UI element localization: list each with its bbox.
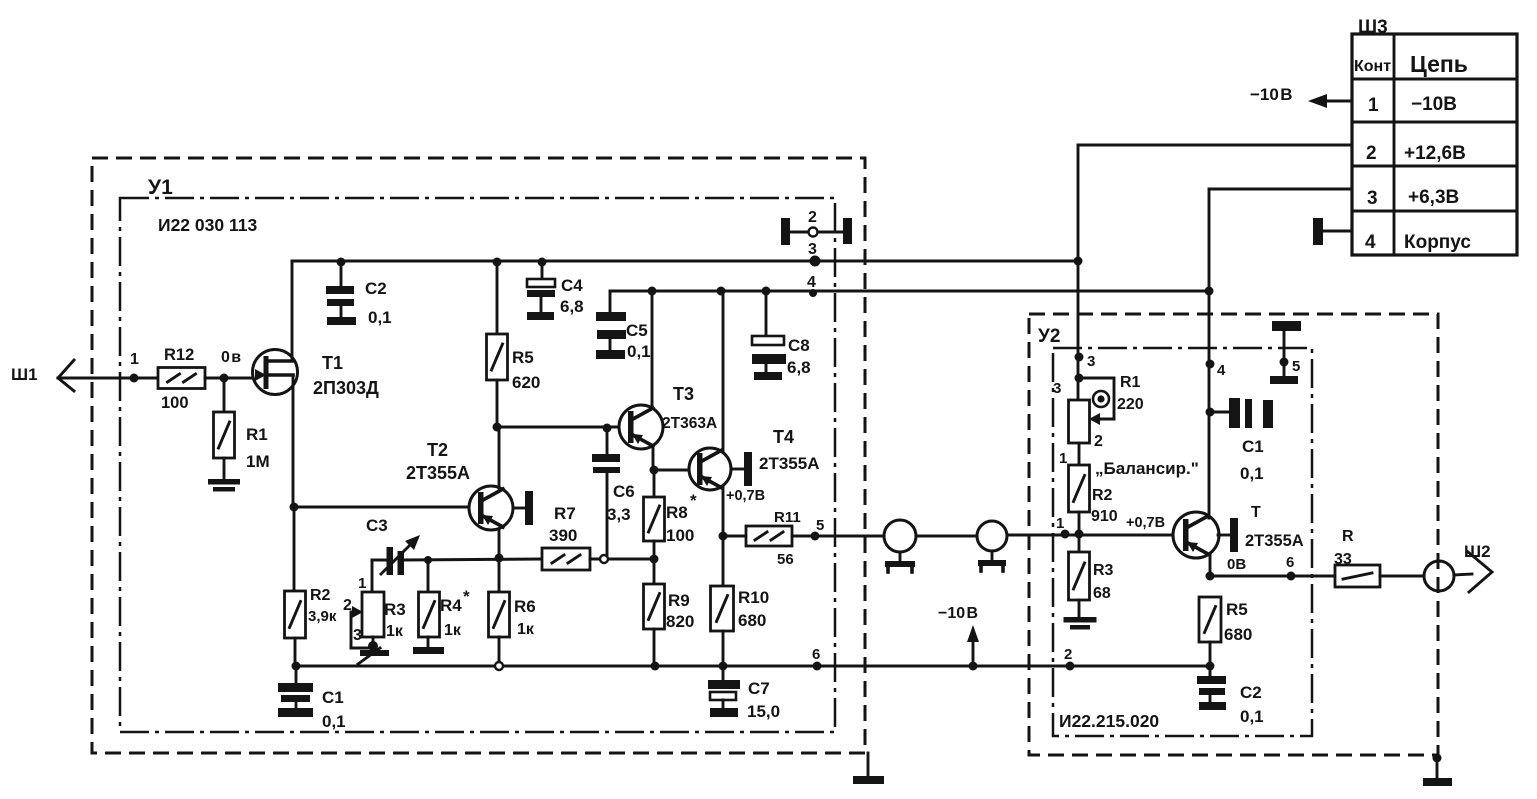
node U1 pin 5	[811, 517, 825, 541]
svg-text:2Т355А: 2Т355А	[759, 454, 819, 473]
svg-text:3: 3	[808, 241, 817, 258]
wire T emitter down	[1209, 554, 1212, 576]
node U2 pin 6	[1286, 554, 1296, 581]
resistor R3 1к (trim)	[362, 560, 406, 640]
wire R7 right to R8/R9	[590, 558, 654, 561]
svg-text:5: 5	[1292, 358, 1300, 375]
resistor R6 1к	[489, 559, 536, 666]
ground below R3 with adjust slash	[358, 637, 389, 664]
wire +6,3V from table pin 3	[1209, 188, 1352, 191]
node R9 bottom	[651, 662, 660, 671]
svg-text:У2: У2	[1038, 326, 1060, 347]
wire T1 source down	[292, 375, 295, 507]
node C1 left	[1206, 408, 1215, 417]
module U1 inner dash-dot box И22 030 113	[120, 198, 835, 732]
capacitor C1 0,1 (U2)	[1210, 398, 1273, 483]
resistor R10 680	[711, 586, 770, 666]
svg-text:Т4: Т4	[773, 427, 794, 447]
svg-text:1: 1	[1056, 515, 1064, 532]
svg-text:Ш3: Ш3	[1358, 17, 1388, 38]
case bar of T	[1218, 518, 1238, 552]
label 0V at T emitter	[1227, 556, 1246, 573]
node C2 top	[337, 258, 346, 267]
svg-text:1к: 1к	[386, 623, 404, 640]
label +0,7V at T base	[1126, 515, 1165, 531]
svg-text:620: 620	[512, 373, 540, 392]
node U2 base line junction	[1075, 530, 1084, 539]
R3 wiper terminal 2	[343, 597, 372, 648]
svg-text:R7: R7	[554, 504, 576, 523]
wire T4 collector up	[722, 291, 725, 452]
node T3 emitter / R8 / T4 base	[650, 466, 659, 475]
svg-text:C2: C2	[1240, 683, 1262, 702]
wire T1 source rail to T2 base	[294, 506, 469, 509]
svg-text:0,1: 0,1	[627, 342, 651, 361]
svg-text:*: *	[690, 491, 697, 510]
transistor T 2Т355А (U2)	[1173, 504, 1304, 558]
svg-text:−10 В: −10 В	[1250, 85, 1293, 104]
node R5/T2 collector/T3 base	[493, 423, 502, 432]
svg-text:R10: R10	[738, 588, 769, 607]
svg-text:R5: R5	[1226, 600, 1248, 619]
wire to T4 base	[654, 469, 688, 472]
node U1 pin 4	[807, 274, 817, 297]
label 3	[353, 627, 362, 644]
svg-text:0,1: 0,1	[368, 308, 392, 327]
svg-text:Корпус: Корпус	[1404, 232, 1471, 253]
svg-text:+12,6В: +12,6В	[1404, 143, 1466, 164]
svg-text:У1: У1	[148, 176, 173, 199]
resistor R5 680 (U2)	[1199, 597, 1252, 666]
svg-text:2: 2	[1094, 433, 1103, 450]
svg-text:И22.215.020: И22.215.020	[1059, 711, 1159, 731]
svg-text:C8: C8	[788, 336, 810, 355]
svg-text:100: 100	[666, 526, 694, 545]
node R5 top	[493, 258, 502, 267]
svg-text:C1: C1	[1242, 437, 1264, 456]
svg-text:4: 4	[807, 274, 816, 291]
svg-text:6,8: 6,8	[560, 297, 584, 316]
wire T3 emitter down	[652, 447, 655, 470]
ground below R1	[208, 479, 240, 492]
wire +6,3V vertical into U2 (T collector)	[1208, 189, 1211, 518]
svg-text:И22 030 113: И22 030 113	[158, 215, 257, 235]
module U2 inner dash-dot box И22.215.020	[1053, 348, 1312, 736]
svg-text:C3: C3	[366, 516, 388, 535]
svg-text:R9: R9	[668, 591, 690, 610]
feedthrough capacitor at U1 pin 2	[781, 209, 852, 245]
wire +6,3V top rail (U1 pin 3)	[292, 260, 1078, 263]
wire T2 emitter down	[498, 529, 501, 558]
capacitor C8 6,8	[752, 291, 811, 380]
node T1 source / R2 top	[290, 503, 299, 512]
resistor R8* 100	[644, 470, 698, 559]
wire +12,6V rail (U1 pin 4)	[610, 290, 1209, 293]
svg-text:R1: R1	[246, 425, 268, 444]
transistor T3 2Т363А	[619, 384, 717, 449]
node R6 bottom	[495, 662, 503, 670]
node 1 (U1 pin 1)	[130, 351, 140, 383]
node R1 top / wiper tap	[1053, 374, 1084, 398]
svg-text:680: 680	[1224, 625, 1252, 644]
wire +12,6V from table pin 2	[1078, 144, 1352, 147]
svg-text:C1: C1	[322, 688, 344, 707]
svg-text:4: 4	[1217, 362, 1226, 379]
svg-text:220: 220	[1117, 396, 1144, 413]
svg-text:6: 6	[812, 646, 820, 663]
capacitor C4 6,8	[527, 261, 584, 320]
feedthrough capacitor at table pin 4 (Корпус)	[1313, 218, 1352, 245]
node R5 bottom / C2 top	[1206, 662, 1215, 671]
svg-text:0,1: 0,1	[1240, 707, 1264, 726]
svg-text:2Т355А: 2Т355А	[406, 463, 470, 483]
node U1 pin 3	[808, 241, 821, 267]
svg-text:+6,3В: +6,3В	[1408, 187, 1459, 208]
module U1 outer dashed box	[92, 158, 865, 753]
resistor R 33 (output)	[1334, 528, 1380, 587]
capacitor C1 0,1	[278, 666, 346, 731]
svg-text:*: *	[463, 587, 470, 606]
node U2 pin 1	[1056, 515, 1070, 539]
resistor R2 3,9к	[285, 507, 337, 666]
svg-text:+0,7В: +0,7В	[1126, 515, 1165, 531]
svg-text:3,9к: 3,9к	[308, 608, 337, 625]
node U1 pin 6	[812, 646, 822, 671]
svg-text:Ш2: Ш2	[1464, 542, 1491, 561]
capacitor C2 0,1 (U2)	[1197, 666, 1264, 726]
node C4 top	[538, 258, 547, 267]
svg-text:Т3: Т3	[673, 384, 694, 404]
label И22.215.020	[1059, 711, 1159, 731]
svg-text:3: 3	[1053, 380, 1061, 397]
label +0,7V at T4 emitter	[726, 488, 765, 504]
node C6 on T3 base line	[603, 424, 612, 433]
resistor R11 56	[723, 509, 801, 568]
svg-text:3: 3	[353, 627, 362, 644]
node T3 collector on rail	[648, 287, 657, 296]
ground below U2 R3	[1064, 617, 1097, 630]
svg-text:0 в: 0 в	[221, 349, 241, 366]
resistor R5 620	[487, 261, 541, 427]
svg-text:−10В: −10В	[1411, 94, 1457, 115]
svg-text:Ш1: Ш1	[11, 365, 38, 384]
svg-text:3,3: 3,3	[607, 505, 631, 524]
svg-text:1М: 1М	[246, 452, 270, 471]
wire bottom bus (U1 pin 6 net)	[296, 665, 1210, 668]
capacitor C5 0,1	[596, 291, 651, 361]
node C6 bottom	[600, 555, 608, 563]
module U2 outer dashed box	[1029, 314, 1438, 755]
svg-text:2П303Д: 2П303Д	[313, 378, 379, 398]
node U2 pin 2	[1064, 646, 1075, 671]
node rail3 / +12,6V junction	[1074, 257, 1083, 266]
node T4 collector on rail	[717, 287, 726, 296]
transistor T2 2Т355А	[406, 440, 513, 530]
wire between connectors	[916, 535, 977, 538]
svg-text:0,1: 0,1	[322, 712, 346, 731]
svg-text:100: 100	[161, 394, 189, 412]
resistor R2 910	[1059, 443, 1118, 534]
node R4 top	[424, 556, 432, 564]
svg-text:2Т363А: 2Т363А	[662, 415, 717, 432]
capacitor C7 15,0	[708, 666, 780, 721]
svg-text:3: 3	[1367, 188, 1378, 209]
svg-text:1: 1	[358, 575, 366, 592]
svg-text:5: 5	[816, 517, 824, 534]
connector Ш1 arrow	[11, 360, 158, 391]
node U2 pin 3 outer	[1075, 353, 1096, 371]
wire T4 emitter down through R11 node	[722, 487, 725, 586]
svg-text:2: 2	[1366, 143, 1377, 164]
svg-text:1: 1	[1059, 450, 1067, 467]
svg-text:R2: R2	[310, 587, 331, 604]
svg-text:2: 2	[808, 209, 817, 226]
label 1 at R3 top	[358, 575, 366, 592]
svg-text:2: 2	[1064, 646, 1072, 663]
case bar of T2	[513, 491, 533, 525]
ground below R4	[413, 647, 444, 654]
resistor R1 1M	[214, 378, 270, 479]
ground below U1 box	[853, 753, 884, 784]
wire R12 to T1 gate	[205, 377, 253, 380]
svg-text:Т: Т	[1251, 504, 1261, 521]
svg-text:0,1: 0,1	[1240, 464, 1264, 483]
wire pin5 to coax connectors	[792, 535, 884, 538]
svg-text:1: 1	[1368, 95, 1379, 116]
resistor R9 820	[644, 559, 695, 666]
resistor R3 68	[1069, 534, 1114, 616]
svg-text:R2: R2	[1092, 487, 1113, 504]
svg-text:„Балансир.": „Балансир."	[1095, 459, 1199, 478]
svg-text:C6: C6	[613, 482, 635, 501]
-10V arrow at bus	[938, 605, 979, 671]
svg-text:R: R	[1342, 528, 1354, 545]
svg-text:R4: R4	[440, 596, 462, 615]
wire T1 drain up to +6,3V rail	[291, 261, 294, 361]
wire T3 collector up	[651, 291, 654, 407]
label U2	[1038, 326, 1060, 347]
svg-text:C2: C2	[365, 279, 387, 298]
svg-text:C5: C5	[626, 321, 648, 340]
svg-text:910: 910	[1091, 508, 1118, 525]
svg-text:Цепь: Цепь	[1410, 51, 1468, 77]
label Балансир	[1095, 459, 1199, 478]
node U2 pin 4	[1206, 360, 1227, 380]
label И22 030 113	[158, 215, 257, 235]
svg-text:680: 680	[738, 611, 766, 630]
capacitor C3 (trimmer)	[366, 516, 420, 575]
node R11 left on emitter line	[719, 532, 728, 541]
node rail4 end junction	[1205, 287, 1214, 296]
connector Ш2	[1380, 542, 1492, 592]
svg-text:C7: C7	[748, 679, 770, 698]
svg-text:0В: 0В	[1227, 556, 1246, 573]
svg-text:R12: R12	[164, 346, 194, 364]
svg-text:1к: 1к	[517, 621, 535, 638]
svg-text:R3: R3	[1093, 562, 1114, 579]
svg-text:1: 1	[130, 351, 139, 368]
svg-text:C4: C4	[561, 276, 583, 295]
transistor T4 2Т355А	[689, 427, 819, 490]
resistor R7 390	[542, 504, 590, 570]
label U1	[148, 176, 173, 199]
svg-text:Т2: Т2	[427, 440, 448, 460]
svg-text:390: 390	[549, 526, 577, 545]
svg-text:820: 820	[666, 612, 694, 631]
svg-text:R11: R11	[774, 509, 801, 526]
node C8 top	[762, 287, 771, 296]
net -10V arrow into table pin 1	[1250, 85, 1352, 108]
node T emitter / R5 / output	[1206, 572, 1215, 581]
feedthrough capacitor U2 pin 5	[1270, 321, 1301, 384]
coax connector 1	[884, 520, 916, 572]
wire T3 base line	[497, 426, 619, 429]
svg-text:6,8: 6,8	[787, 358, 811, 377]
svg-text:2Т355А: 2Т355А	[1245, 532, 1304, 550]
wire +12,6V vertical into U2 (R1 chain)	[1077, 145, 1080, 400]
svg-text:15,0: 15,0	[747, 702, 780, 721]
wire T2 collector up	[498, 427, 501, 488]
svg-text:R3: R3	[384, 600, 406, 619]
svg-text:Т1: Т1	[322, 353, 343, 373]
node C1 top	[292, 662, 301, 671]
svg-text:Конт: Конт	[1354, 58, 1391, 75]
svg-text:33: 33	[1334, 551, 1352, 568]
svg-text:68: 68	[1093, 585, 1111, 602]
svg-text:6: 6	[1286, 554, 1294, 571]
coax connector 2	[977, 521, 1007, 571]
svg-text:R1: R1	[1120, 374, 1141, 391]
svg-text:1к: 1к	[444, 622, 462, 639]
node R8 bottom / R9 top	[650, 555, 659, 564]
capacitor C6 3,3	[592, 428, 635, 559]
resistor R12 100	[158, 346, 205, 412]
ground below U2 box	[1423, 754, 1452, 787]
svg-text:R8: R8	[666, 503, 688, 522]
node T2 emitter / R6 top	[495, 554, 504, 563]
node 0V at T1 gate	[220, 349, 242, 383]
case bar of T4	[732, 452, 752, 486]
connector table Ш3	[1352, 17, 1517, 255]
node R10/C7	[719, 662, 728, 671]
svg-text:+0,7В: +0,7В	[726, 488, 765, 504]
resistor R1 220 (trimmer)	[1069, 374, 1144, 450]
capacitor C2 0,1	[326, 261, 392, 327]
svg-text:R6: R6	[514, 597, 536, 616]
svg-text:4: 4	[1365, 232, 1376, 253]
svg-text:−10 В: −10 В	[938, 605, 978, 622]
wire emitter node to R 33	[1210, 575, 1335, 578]
transistor T1 2П303Д (FET)	[253, 350, 379, 399]
svg-text:3: 3	[1087, 353, 1095, 370]
svg-text:R5: R5	[512, 348, 534, 367]
wire connector2 to U2 T base	[1007, 534, 1173, 537]
wire C3/R4 node to T2 emitter and R7	[404, 559, 542, 560]
svg-text:56: 56	[777, 551, 794, 568]
resistor R4* 1к	[419, 560, 471, 647]
